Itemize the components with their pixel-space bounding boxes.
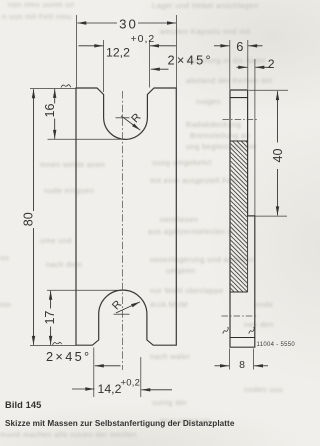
hatch top boundary	[230, 140, 248, 142]
svg-text:80: 80	[21, 212, 35, 226]
vertical centerline	[121, 91, 123, 370]
side view outline	[230, 90, 255, 347]
paper bleed-through texture	[8, 0, 74, 9]
extension line bottom notch left	[93, 348, 95, 398]
squiggle side bottom right	[249, 327, 254, 333]
svg-text:14,2: 14,2	[98, 382, 122, 396]
extension line 30 right	[175, 15, 177, 88]
extension line 6 right	[247, 40, 249, 89]
extension line 40 bottom	[255, 215, 287, 217]
hatch bottom boundary	[230, 291, 248, 293]
plate outline (front view)	[76, 88, 176, 345]
svg-text:12,2: 12,2	[106, 46, 130, 60]
dimension 80 line	[33, 89, 35, 211]
svg-text:30: 30	[119, 17, 138, 32]
extension line 40 top	[249, 89, 289, 91]
extension line bottom-left (for 80 and 17)	[30, 344, 76, 346]
extension line top-left (for 16 and 80)	[30, 87, 76, 89]
extension line 30 left	[76, 15, 78, 88]
chamfer leader bottom 2x45	[95, 365, 121, 367]
squiggle mark bottom-left	[53, 342, 62, 345]
radius leader bottom R	[116, 302, 140, 313]
squiggle side bottom left	[223, 327, 228, 333]
dimension 17 line	[50, 291, 52, 309]
dimension 6 arrows	[214, 45, 229, 47]
svg-text:Skizze mit Massen zur Selbstan: Skizze mit Massen zur Selbstanfertigung …	[5, 419, 235, 428]
svg-text:Bild 145: Bild 145	[5, 400, 41, 410]
side view centerline upper	[223, 119, 258, 121]
top chamfer edge line (side view)	[230, 97, 248, 99]
svg-text:2×45°: 2×45°	[46, 349, 91, 364]
svg-text:17: 17	[43, 311, 57, 325]
dimension 30 line	[77, 22, 117, 24]
dimension 12,2 arrows	[79, 45, 104, 47]
svg-text:11004 - 5550: 11004 - 5550	[257, 342, 296, 348]
radius leader top R	[121, 116, 140, 130]
svg-text:2×45°: 2×45°	[168, 52, 213, 67]
dimension 16 line	[54, 89, 56, 104]
extension line 12,2 left	[103, 40, 105, 92]
hatched section	[231, 141, 247, 292]
extension line bottom notch right	[140, 357, 142, 397]
dimension 14,2 arrows	[72, 388, 94, 390]
svg-text:+0,2: +0,2	[121, 378, 141, 389]
svg-text:40: 40	[271, 149, 285, 163]
extension line 17 top	[47, 289, 122, 291]
dimension 40 line	[277, 91, 279, 142]
extension line 8 right	[253, 349, 255, 370]
svg-text:16: 16	[43, 104, 57, 118]
extension line 6 left	[229, 40, 231, 89]
extension line 2 right	[254, 59, 256, 216]
extension line 12,2 right / chamfer leader ext	[149, 40, 151, 88]
svg-text:8: 8	[239, 359, 245, 371]
dimension 8 arrows	[215, 365, 230, 367]
top arc center tick	[116, 117, 130, 119]
section inner edge	[247, 216, 249, 292]
bottom chamfer edge line (side view)	[230, 337, 255, 339]
squiggle mark top-left	[61, 85, 71, 88]
side view centerline lower	[222, 315, 259, 317]
extension line 16 bottom	[48, 138, 123, 140]
extension line 8 left	[228, 349, 230, 370]
svg-text:2: 2	[268, 57, 275, 71]
svg-text:+0,2: +0,2	[131, 33, 156, 45]
svg-text:6: 6	[236, 39, 243, 54]
bottom arc center tick	[114, 313, 130, 315]
dimension 2 arrows	[237, 66, 248, 68]
chamfer leader top 2x45	[151, 68, 169, 70]
